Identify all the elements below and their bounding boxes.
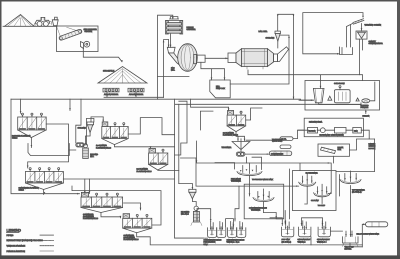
wire: main trunk verticals	[175, 99, 204, 238]
electric furnace	[361, 99, 370, 109]
wire: reagent line	[298, 130, 375, 139]
border frame right	[397, 0, 400, 259]
svg-text:PIPING: PIPING	[7, 234, 14, 237]
scavenger flotation bank	[19, 168, 64, 192]
wire: 2nd cleaner tails	[158, 169, 179, 171]
CIL thickener train 1	[299, 174, 316, 204]
wire: regrind 2 out	[195, 209, 198, 221]
rougher concentrate pump	[76, 143, 84, 147]
grizzly feeder conveyor	[57, 26, 82, 40]
border frame bottom	[0, 255, 400, 259]
legend	[7, 228, 54, 253]
rougher flotation bank	[12, 113, 46, 140]
svg-text:CELLS: CELLS	[19, 188, 25, 191]
label pre-aeration	[204, 239, 223, 246]
jaw crusher	[81, 41, 90, 48]
wire: gold room piping	[248, 70, 375, 105]
wire: bottom-left return	[72, 186, 161, 225]
wire: bullion out	[365, 110, 367, 114]
apron feeder 2	[128, 88, 144, 96]
carbon regen kiln package	[318, 144, 350, 156]
tails pump hopper	[343, 237, 359, 251]
scats chute	[340, 47, 353, 55]
wire: mid bus to gold room internal	[175, 103, 361, 105]
pebble crusher	[166, 17, 197, 34]
wire: pre-leach feed	[215, 157, 262, 169]
concentrate leach tank 2	[237, 222, 246, 238]
shaking table cup	[313, 88, 324, 102]
concentrate leach pre-aeration tank 2	[217, 222, 226, 238]
CIL thickener train 2	[311, 184, 331, 207]
wire: main mill bus to gold room	[11, 99, 313, 100]
svg-text:PHASE 2 ADDITION: PHASE 2 ADDITION	[7, 250, 26, 253]
jaw crusher station box	[57, 26, 99, 52]
front-end loader	[33, 17, 52, 26]
1st cleaner flotation bank	[96, 122, 128, 149]
wire: 1st cleaner concentrate	[114, 145, 174, 149]
svg-text:THICKENER: THICKENER	[231, 180, 242, 183]
svg-text:MILL No.2: MILL No.2	[181, 213, 189, 216]
wire: trunk loop	[175, 101, 187, 155]
concentrate leach tank 1	[228, 222, 237, 238]
concentrate filter pumps	[236, 150, 245, 157]
border frame left	[0, 0, 2, 259]
arrowheads	[121, 60, 123, 62]
wire: to filter	[245, 153, 269, 155]
regrind mill no.1	[83, 133, 99, 159]
regrind mill no.2	[181, 199, 202, 226]
wire: pebble crusher to SAG feed	[164, 34, 171, 97]
ROM stockpile	[5, 15, 35, 27]
wire: carbon tank links	[270, 211, 343, 245]
wire: crusher discharge to conveyor	[83, 49, 122, 62]
carbon react tank 3-4	[318, 221, 330, 237]
mill cyclone	[266, 31, 281, 41]
tails thickener	[340, 171, 365, 194]
2nd cleaner flotation bank	[137, 148, 168, 172]
wire: cyclone overflow	[278, 14, 294, 99]
wire: CIL feed loop	[181, 141, 332, 194]
wire: pump box to cyclone feed	[230, 50, 289, 84]
wire: SAG discharge	[158, 58, 229, 80]
valve symbol	[356, 98, 359, 101]
wire: right side verticals	[336, 139, 375, 237]
svg-text:FLOTATION CELLS: FLOTATION CELLS	[137, 170, 153, 173]
CIL area box	[292, 171, 336, 211]
covered stockpile cone	[98, 67, 147, 84]
acid wash box	[335, 128, 347, 134]
svg-text:GOLD ROOM: GOLD ROOM	[334, 82, 345, 85]
svg-text:FLOTATION CELLS: FLOTATION CELLS	[124, 238, 140, 241]
wire: 3rd cleaner tails	[246, 108, 262, 120]
svg-text:VENDOR PACKAGE: VENDOR PACKAGE	[7, 245, 26, 248]
vibrating screen	[353, 19, 382, 27]
kiln box	[353, 128, 362, 134]
svg-text:THICKENER: THICKENER	[222, 146, 233, 149]
wire: scavenger tails to trunk	[44, 179, 175, 195]
wire: leach tank feeds	[175, 186, 239, 238]
wire: scav cleaner bank A out	[101, 203, 141, 218]
elution column	[308, 128, 318, 134]
cyclone no.2	[179, 184, 196, 199]
mill discharge pump box	[210, 80, 230, 98]
pre-leach thickener	[231, 163, 274, 196]
svg-text:MILL: MILL	[90, 155, 94, 158]
SAG mill	[167, 44, 205, 72]
border frame top	[0, 0, 400, 2]
scavenger 1st cleaner flotation bank	[81, 192, 123, 220]
wire: rougher feed drop	[21, 99, 81, 143]
gravity concentrator	[356, 24, 383, 46]
gold room box	[305, 81, 380, 111]
wire: 3rd cleaner conc to thickener	[236, 132, 244, 141]
concentrate leach pre-aeration tank 1	[208, 222, 217, 238]
wire: cleaner bank feed drop	[102, 117, 104, 121]
electrowinning cell	[334, 86, 350, 103]
label acid tank	[282, 238, 292, 243]
svg-text:LEGEND: LEGEND	[7, 228, 22, 232]
scavenger 2nd cleaner flotation bank	[123, 214, 152, 242]
wire: feeders to SAG feed conveyor	[104, 92, 164, 97]
svg-text:CYCLONE: CYCLONE	[266, 37, 275, 40]
feed hopper	[52, 17, 58, 25]
wire: thickener overflow	[246, 139, 284, 141]
wire: mill to cyclone feed	[278, 35, 289, 50]
reagent area box	[304, 118, 363, 137]
wire: 1st cleaner tails	[128, 118, 174, 135]
wire: leach thickener links	[264, 169, 290, 219]
mill process water tank	[366, 222, 388, 227]
svg-text:FLOTATION CELLS: FLOTATION CELLS	[96, 146, 112, 149]
svg-text:INTERMITTENT (STANDBY) PROCESS: INTERMITTENT (STANDBY) PROCESS	[7, 239, 44, 242]
sample pyramid	[328, 96, 332, 100]
wire: hopper feeds	[346, 231, 362, 247]
concentrate filter press	[269, 151, 292, 156]
wire: pebble recycle vertical	[158, 15, 173, 99]
wire: 2nd cleaner conc riser to 3rd cleaner	[191, 99, 229, 130]
wire: water tank inlet	[362, 224, 365, 247]
svg-text:PUMP BOX: PUMP BOX	[216, 87, 226, 90]
3rd cleaner flotation bank	[223, 111, 246, 137]
svg-text:CYCLONE: CYCLONE	[78, 127, 87, 130]
rougher concentrate trough	[28, 144, 69, 156]
concentrate thickener	[222, 139, 251, 150]
mixer	[320, 128, 325, 133]
svg-text:CRUSHER: CRUSHER	[187, 28, 197, 31]
svg-text:CELLS: CELLS	[12, 137, 18, 140]
svg-text:STATION: STATION	[85, 30, 93, 33]
wire: rougher concentrate down	[30, 138, 32, 148]
wire: rougher tails to scavenger	[11, 99, 80, 194]
wire: screen feed top bus	[303, 13, 363, 54]
wire: regen links	[293, 130, 369, 163]
acid wash tank	[282, 221, 294, 237]
concentrate leach thickener box	[244, 184, 284, 219]
svg-text:BALL MILL: BALL MILL	[259, 30, 268, 33]
wire: concentrator to gold room	[360, 39, 363, 75]
wire: scav cleaner bank B out	[137, 233, 363, 245]
to CIL pills	[280, 137, 293, 141]
wire: tails line to CIL	[196, 158, 299, 186]
svg-text:VIBRATING SCREEN: VIBRATING SCREEN	[365, 24, 382, 27]
label carbon react 3-4	[317, 238, 330, 243]
label leach tanks	[227, 239, 246, 244]
apron feeder 1	[103, 88, 119, 96]
wire: screen oversize to chute	[347, 23, 354, 47]
wire: scav cleaner feeds	[85, 179, 90, 194]
svg-text:MILL: MILL	[171, 68, 175, 71]
svg-text:REAGENT AREA: REAGENT AREA	[309, 121, 323, 124]
carbon react tank 2	[299, 221, 311, 237]
ball mill	[228, 30, 289, 69]
cleaner cyclone	[78, 122, 94, 133]
svg-text:STOCKPILE: STOCKPILE	[103, 70, 115, 73]
label carbon react 2	[298, 238, 311, 243]
svg-text:FLOTATION CELLS: FLOTATION CELLS	[83, 217, 99, 220]
svg-text:APRON FEEDER: APRON FEEDER	[104, 93, 119, 96]
ground line	[3, 25, 57, 27]
wire: pump to cleaner cyclone	[69, 117, 103, 150]
svg-text:CONCENTRATOR: CONCENTRATOR	[369, 42, 384, 45]
